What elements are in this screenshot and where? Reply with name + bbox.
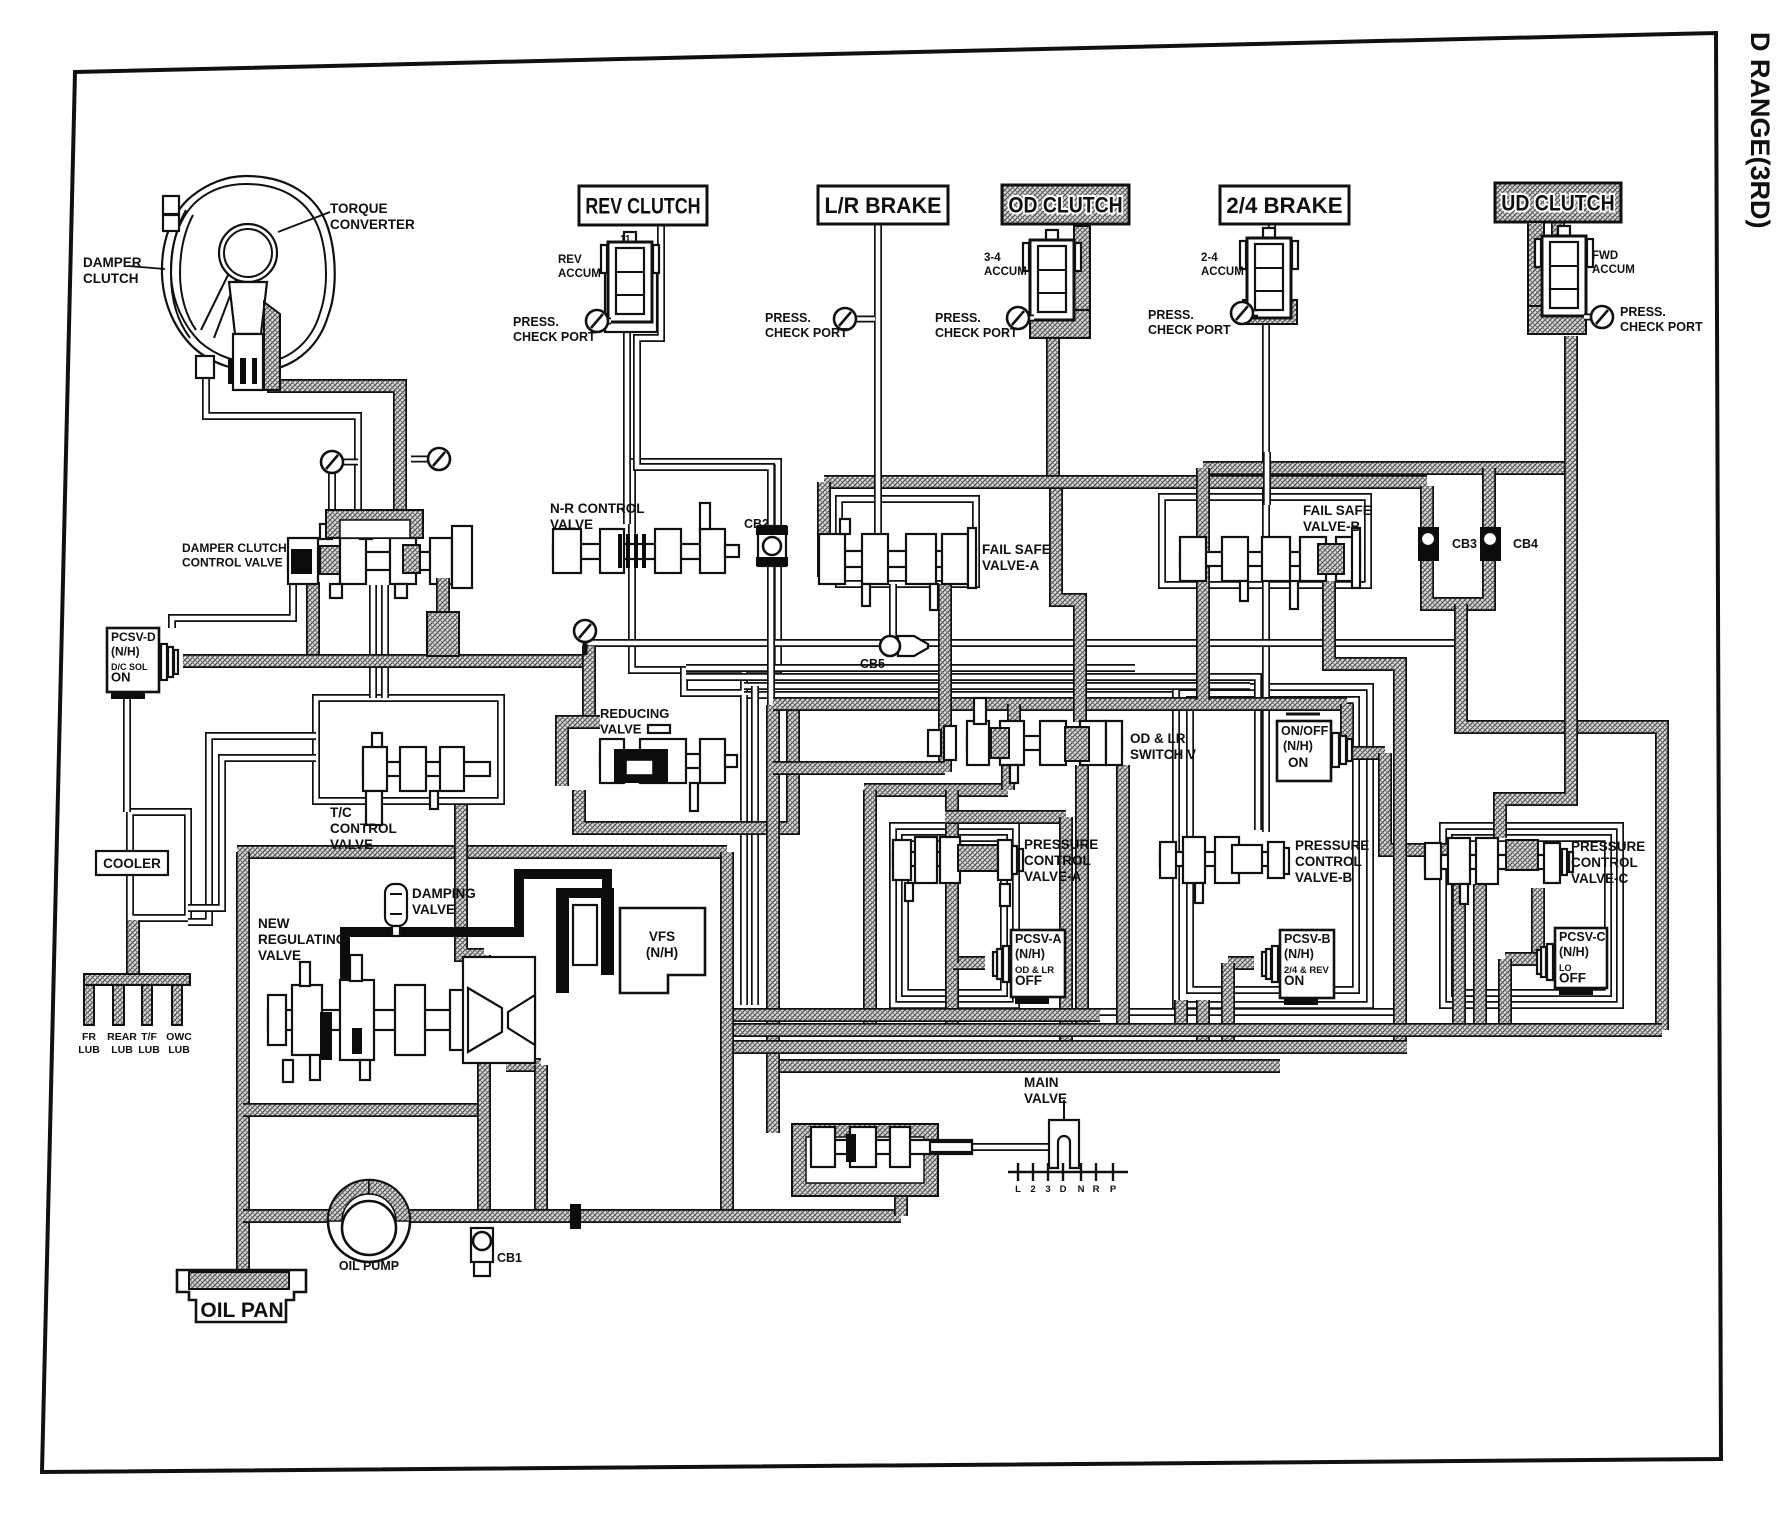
node label fail safe valve-B xyxy=(1303,503,1372,534)
svg-text:T/C: T/C xyxy=(330,805,352,820)
wire main valve hatched chamber xyxy=(792,1124,938,1196)
wire regulator supply band y852 xyxy=(237,845,727,859)
valve fail safe valve-A xyxy=(819,519,976,610)
wire CB3-CB4 loop xyxy=(1427,560,1489,604)
svg-text:DAMPER: DAMPER xyxy=(83,255,142,270)
diode CB3 check ball xyxy=(1418,527,1439,561)
svg-text:OD & LR: OD & LR xyxy=(1130,731,1186,746)
valve pressure control valve-A xyxy=(893,837,1023,906)
node discharge plug xyxy=(570,1204,581,1229)
node label main valve xyxy=(1024,1075,1067,1106)
wire damper clutch leader xyxy=(128,266,165,269)
wire enclosure PCV-C body xyxy=(1443,826,1620,1005)
svg-text:L: L xyxy=(1015,1184,1021,1195)
svg-text:(N/H): (N/H) xyxy=(1284,947,1314,961)
valve pressure control valve-B xyxy=(1160,837,1289,903)
wire PCSV-B stub xyxy=(1228,956,1254,970)
wire PCV-C drain xyxy=(1531,888,1545,959)
valve new regulating valve xyxy=(268,955,535,1082)
capacitor REV accumulator xyxy=(601,232,659,322)
wire 2/4 brake box stem xyxy=(1268,224,1276,240)
transistor ON/OFF solenoid xyxy=(1277,714,1352,781)
svg-text:PRESS.: PRESS. xyxy=(765,311,811,325)
wire enclosure fail-safe valve-B body xyxy=(1162,497,1368,585)
wire REV clutch line to CB2 xyxy=(637,225,771,531)
node lubrication manifold xyxy=(84,974,190,1025)
wire link line y768 xyxy=(773,761,945,775)
wire CB2 outlet down xyxy=(767,562,775,705)
svg-text:PRESS.: PRESS. xyxy=(1620,305,1666,319)
node pressure check port xyxy=(321,451,358,473)
node REV accum jacket xyxy=(605,248,657,332)
node label damping valve xyxy=(412,886,476,917)
svg-text:CONTROL: CONTROL xyxy=(1024,853,1091,868)
svg-text:UD CLUTCH: UD CLUTCH xyxy=(1501,190,1614,215)
svg-text:VFS: VFS xyxy=(649,929,675,944)
node label oil pump xyxy=(339,1259,399,1273)
wire OD-LR valve drain stub xyxy=(1001,765,1015,790)
node label press check port 4 xyxy=(1148,308,1231,337)
wire VFS bold circuit xyxy=(345,874,607,1041)
svg-text:CONTROL: CONTROL xyxy=(330,821,397,836)
valve pressure control valve-C xyxy=(1425,838,1573,904)
node pressure check port xyxy=(586,310,611,332)
svg-text:LUB: LUB xyxy=(138,1044,160,1056)
node torque converter xyxy=(128,176,335,390)
node pressure check port xyxy=(1007,307,1034,329)
node oil pump xyxy=(328,1180,410,1262)
node label rev accum xyxy=(558,254,601,280)
svg-text:VALVE-A: VALVE-A xyxy=(1024,869,1082,884)
transistor PCSV-B solenoid xyxy=(1262,930,1334,1005)
svg-text:NEW: NEW xyxy=(258,916,290,931)
node label pressure control valve-C xyxy=(1571,839,1645,886)
svg-text:CHECK PORT: CHECK PORT xyxy=(1620,320,1703,334)
wire pilot band y704 long xyxy=(773,697,1347,711)
wire pilot line through CB5 xyxy=(587,639,1458,647)
valve main (manual) valve xyxy=(811,1127,972,1167)
svg-text:ACCUM: ACCUM xyxy=(1592,264,1635,276)
node label N-R control valve xyxy=(550,501,645,532)
node OD CLUTCH box xyxy=(1002,185,1129,224)
node label CB4 xyxy=(1513,537,1538,551)
node label new regulating valve xyxy=(258,916,346,963)
wire damper valve to T/C valve line 2 xyxy=(381,585,389,698)
node 2-4 accum pocket xyxy=(1243,300,1297,324)
wire enclosure T/C control valve body xyxy=(316,698,501,801)
node VFS box xyxy=(620,908,705,993)
transistor PCSV-D solenoid xyxy=(107,628,178,699)
svg-text:PRESS.: PRESS. xyxy=(513,315,559,329)
node pressure check port xyxy=(574,620,596,642)
wire converter feed from damper valve xyxy=(274,306,400,515)
wire manual valve pilot return xyxy=(1005,1008,1400,1016)
svg-text:PRESS.: PRESS. xyxy=(935,311,981,325)
wire OD-LR right outlet down xyxy=(1116,765,1130,1030)
wire enclosure on/off + PCV-B body xyxy=(1176,687,1370,1005)
wire cooler drain to lub xyxy=(126,920,140,976)
node label pressure control valve-A xyxy=(1024,837,1098,884)
svg-text:PRESSURE: PRESSURE xyxy=(1295,838,1369,853)
svg-text:CB1: CB1 xyxy=(497,1251,522,1265)
node REV CLUTCH box xyxy=(579,186,707,225)
wire 3-4 accum pocket drain xyxy=(1046,338,1060,486)
valve N-R control valve xyxy=(553,503,739,573)
transistor PCSV-C solenoid xyxy=(1537,928,1607,995)
valve OD-LR switch valve xyxy=(928,698,1122,783)
node pressure check port xyxy=(1231,302,1258,324)
wire pilot bundle line 3 xyxy=(744,682,1250,690)
wire drop to bottom main x952 xyxy=(945,790,959,1030)
svg-text:CONTROL: CONTROL xyxy=(1571,855,1638,870)
wire bottom main 1 xyxy=(727,1008,1100,1022)
valve damping valve xyxy=(385,884,407,936)
wire damper valve drain xyxy=(306,582,320,661)
svg-text:OWC: OWC xyxy=(166,1031,192,1043)
svg-text:FWD: FWD xyxy=(1592,250,1618,262)
svg-text:CB3: CB3 xyxy=(1452,537,1477,551)
svg-text:R: R xyxy=(1093,1184,1100,1195)
svg-text:3: 3 xyxy=(1045,1184,1050,1195)
wire check port stub left xyxy=(328,473,336,512)
svg-text:L/R BRAKE: L/R BRAKE xyxy=(825,193,942,218)
svg-text:CONVERTER: CONVERTER xyxy=(330,217,415,232)
svg-text:VALVE-B: VALVE-B xyxy=(1303,519,1361,534)
valve damper clutch control valve xyxy=(288,524,472,598)
wire line pressure main to PCSV-D xyxy=(183,654,589,668)
wire 2-4 stem over band xyxy=(1263,452,1271,505)
wire discharge riser to main valve xyxy=(894,1190,908,1216)
svg-text:2-4: 2-4 xyxy=(1201,252,1218,264)
wire solenoid feed drop 2 xyxy=(751,686,759,1005)
node label torque converter xyxy=(330,201,415,232)
wire drop to bottom main x1505 xyxy=(1498,959,1512,1030)
wire torque converter leader xyxy=(278,212,330,232)
svg-text:VALVE-C: VALVE-C xyxy=(1571,871,1629,886)
svg-text:CB4: CB4 xyxy=(1513,537,1538,551)
valve reducing valve xyxy=(562,722,737,811)
wire N-R enclosure port notch xyxy=(684,670,744,693)
wire PCSV-A stub v xyxy=(945,947,959,963)
wire damper valve to T/C valve line 1 xyxy=(369,585,377,698)
node label CB3 xyxy=(1452,537,1477,551)
svg-text:(N/H): (N/H) xyxy=(111,645,140,659)
svg-text:CB5: CB5 xyxy=(860,657,885,671)
node label CB2 xyxy=(744,517,769,531)
svg-text:DAMPER CLUTCH: DAMPER CLUTCH xyxy=(182,541,287,555)
node manual lever fork xyxy=(1049,1100,1079,1168)
svg-text:REGULATING: REGULATING xyxy=(258,932,346,947)
wire 2-4 accum line down to PCV-B xyxy=(1262,318,1270,832)
svg-text:MAIN: MAIN xyxy=(1024,1075,1059,1090)
svg-text:3-4: 3-4 xyxy=(984,252,1001,264)
wire enclosure PCV-A inner outline xyxy=(905,838,1004,993)
wire reducing valve outlet loop xyxy=(579,707,793,828)
node label pressure control valve-B xyxy=(1295,838,1369,885)
svg-text:ACCUM: ACCUM xyxy=(984,266,1027,278)
node pressure check port xyxy=(411,448,450,470)
wire band A left drop xyxy=(1196,468,1210,700)
wire cooler bypass loop xyxy=(130,812,188,918)
node label press check port 5 xyxy=(1620,305,1703,334)
node pressure check port xyxy=(1584,306,1613,328)
svg-text:OIL PAN: OIL PAN xyxy=(200,1299,283,1322)
node label PCSV-D leader xyxy=(600,706,669,737)
svg-text:VALVE: VALVE xyxy=(550,517,593,532)
node label CB5 xyxy=(860,657,885,671)
node label OD-LR switch xyxy=(1130,731,1196,762)
svg-text:LUB: LUB xyxy=(78,1044,100,1056)
svg-text:OFF: OFF xyxy=(1559,971,1586,986)
svg-text:LUB: LUB xyxy=(111,1044,133,1056)
wire drop to bottom main x1459 xyxy=(1452,850,1466,1030)
svg-text:VALVE: VALVE xyxy=(412,902,455,917)
svg-text:DAMPING: DAMPING xyxy=(412,886,476,901)
diode CB5 check ball xyxy=(880,636,928,656)
wire pilot bundle line 1 xyxy=(686,664,1135,672)
wire UD band A xyxy=(1203,461,1571,475)
svg-text:CHECK PORT: CHECK PORT xyxy=(513,330,596,344)
svg-text:TORQUE: TORQUE xyxy=(330,201,388,216)
capacitor 3-4 accumulator xyxy=(1023,230,1081,320)
node 3-4 accum pocket xyxy=(1074,226,1090,338)
svg-text:REV CLUTCH: REV CLUTCH xyxy=(585,193,700,218)
wire PCSV-A stub xyxy=(953,956,985,970)
node label press check port 3 xyxy=(935,311,1018,340)
wire enclosure PCV-A body xyxy=(893,826,1016,1005)
wire OD-LR switch outlet down xyxy=(1075,765,1089,1030)
diode CB1 check ball xyxy=(471,1228,493,1276)
svg-text:ON: ON xyxy=(1288,755,1308,770)
svg-text:D: D xyxy=(1060,1184,1067,1195)
wire suction line to oil pan xyxy=(236,852,250,1271)
node UD CLUTCH box xyxy=(1495,183,1621,222)
wire fail-safe A drain xyxy=(938,584,952,772)
wire PCSV-C stub xyxy=(1505,952,1538,966)
wire drop to bottom main x1228 xyxy=(1221,963,1235,1047)
svg-text:VALVE: VALVE xyxy=(258,948,301,963)
node detent positions xyxy=(1008,1163,1128,1195)
svg-text:VALVE: VALVE xyxy=(1024,1091,1067,1106)
svg-text:PRESS.: PRESS. xyxy=(1148,308,1194,322)
node label damper clutch control valve xyxy=(182,541,287,570)
wire bottom main 2 xyxy=(727,1023,1662,1037)
wire bottom main 4 xyxy=(780,1059,1280,1073)
wire drop to bottom main x1480 xyxy=(1473,884,1487,1030)
svg-text:P: P xyxy=(1110,1184,1117,1195)
wire drop x727 to pump line xyxy=(720,852,734,1216)
wire enclosure PCV-C inner outline xyxy=(1455,838,1608,993)
svg-text:VALVE: VALVE xyxy=(330,837,373,852)
wire regulator right drop xyxy=(534,1065,548,1216)
svg-text:FR: FR xyxy=(82,1031,96,1043)
wire REV accum drain to N-R valve xyxy=(623,332,631,524)
svg-text:ON/OFF: ON/OFF xyxy=(1281,724,1329,738)
svg-text:PCSV-B: PCSV-B xyxy=(1284,932,1331,946)
node L/R BRAKE box xyxy=(818,186,948,224)
wire OD feed to OD-LR switch xyxy=(1056,486,1080,722)
wire pilot bundle line 4 xyxy=(744,691,1172,699)
svg-text:CONTROL VALVE: CONTROL VALVE xyxy=(182,556,283,570)
svg-text:COOLER: COOLER xyxy=(103,856,161,871)
wire damper valve to PCSV-D line xyxy=(172,585,293,628)
node oil pan xyxy=(177,1270,306,1322)
svg-text:ON: ON xyxy=(111,670,131,685)
svg-text:LUB: LUB xyxy=(168,1044,190,1056)
svg-text:REAR: REAR xyxy=(107,1031,137,1043)
svg-text:VALVE: VALVE xyxy=(600,722,642,737)
wire fail-safe B drain to main xyxy=(1329,581,1400,1047)
wire solenoid feed drop 1 xyxy=(740,695,748,1005)
svg-text:FAIL SAFE: FAIL SAFE xyxy=(1303,503,1372,518)
wire fail-safe A to CB5 xyxy=(889,584,897,638)
wire cooler feed line outer xyxy=(188,736,316,922)
node cooler xyxy=(96,851,168,875)
svg-text:PCSV-C: PCSV-C xyxy=(1559,930,1606,944)
valve T/C control valve xyxy=(363,733,490,825)
svg-text:D RANGE(3RD): D RANGE(3RD) xyxy=(1745,32,1775,229)
svg-text:CLUTCH: CLUTCH xyxy=(83,271,139,286)
wire pilot pressure drop center xyxy=(766,705,780,1133)
wire main valve stem xyxy=(972,1143,1049,1151)
capacitor FWD accumulator xyxy=(1535,226,1593,316)
node 2/4 BRAKE box xyxy=(1220,186,1349,224)
wire ON/OFF drain to PCV-C side xyxy=(1385,753,1459,850)
svg-text:REDUCING: REDUCING xyxy=(600,706,669,721)
svg-text:PCSV-D: PCSV-D xyxy=(111,630,156,644)
svg-text:OFF: OFF xyxy=(1015,973,1042,988)
node label 3-4 accum xyxy=(984,252,1027,278)
wire PCSV-D drain to cooler xyxy=(123,695,131,812)
wire regulator right stub xyxy=(506,1058,541,1072)
wire link line y790 xyxy=(864,783,1008,797)
node label 11 mark xyxy=(620,234,631,245)
svg-text:FAIL SAFE: FAIL SAFE xyxy=(982,542,1051,557)
wire link line y817 xyxy=(945,810,1066,824)
node label CB1 xyxy=(497,1251,522,1265)
wire pilot bundle line 2 xyxy=(686,677,1258,830)
node label press check port 1 xyxy=(513,315,596,344)
wire drop to bottom main x1066 xyxy=(1059,817,1073,1047)
wire regulator feedback drop x484 xyxy=(477,955,491,1216)
node FWD accum pocket xyxy=(1528,222,1544,326)
svg-text:(N/H): (N/H) xyxy=(646,945,678,960)
wire enclosure N-R control valve body xyxy=(632,462,778,670)
wire UD clutch stem xyxy=(1551,222,1565,318)
svg-text:CB2: CB2 xyxy=(744,517,769,531)
wire enclosure on/off inner outline xyxy=(1190,700,1356,990)
svg-text:PCSV-A: PCSV-A xyxy=(1015,932,1062,946)
node label lub points xyxy=(78,1031,100,1056)
wire cooler feed line inner xyxy=(188,758,316,908)
svg-text:PRESSURE: PRESSURE xyxy=(1571,839,1645,854)
svg-text:SWITCH V: SWITCH V xyxy=(1130,747,1196,762)
capacitor 2-4 accumulator xyxy=(1240,228,1298,318)
svg-text:CONTROL: CONTROL xyxy=(1295,854,1362,869)
wire drop to bottom main x870 xyxy=(863,790,877,1030)
svg-text:(N/H): (N/H) xyxy=(1559,945,1589,959)
svg-text:PRESSURE: PRESSURE xyxy=(1024,837,1098,852)
svg-text:N: N xyxy=(1078,1184,1085,1195)
valve fail safe valve-B xyxy=(1180,528,1360,609)
node label T/C control valve xyxy=(330,805,397,852)
svg-text:2: 2 xyxy=(1030,1184,1035,1195)
svg-text:VALVE-A: VALVE-A xyxy=(982,558,1040,573)
svg-text:REV: REV xyxy=(558,254,582,266)
svg-text:CHECK PORT: CHECK PORT xyxy=(765,326,848,340)
svg-text:2/4 BRAKE: 2/4 BRAKE xyxy=(1226,193,1342,218)
wire band stub into OD-LR valve xyxy=(1007,704,1021,721)
svg-text:ACCUM: ACCUM xyxy=(1201,266,1244,278)
svg-text:OD CLUTCH: OD CLUTCH xyxy=(1008,192,1122,217)
wire damper valve top chamber xyxy=(326,510,423,538)
diode CB2 check ball xyxy=(756,526,788,566)
wire torque converter drain line xyxy=(206,313,358,512)
svg-text:(N/H): (N/H) xyxy=(1015,947,1045,961)
wire CB3 feed xyxy=(1420,486,1434,528)
wire CB4 feed xyxy=(1482,468,1496,528)
wire pump discharge main xyxy=(410,1209,901,1223)
wire ON-OFF feed drop xyxy=(1340,704,1354,753)
wire L/R brake line xyxy=(874,224,882,540)
wire converter hatched wedge xyxy=(264,302,280,390)
wire drop x1181 xyxy=(1174,1000,1188,1030)
wire T/C valve pillar xyxy=(461,805,484,955)
svg-text:N-R CONTROL: N-R CONTROL xyxy=(550,501,645,516)
svg-text:CHECK PORT: CHECK PORT xyxy=(1148,323,1231,337)
diode CB4 check ball xyxy=(1480,527,1501,561)
wire line pressure band B xyxy=(824,475,1427,489)
wire drop x1203b xyxy=(1196,1000,1210,1047)
wire regulator link y1110 xyxy=(243,1103,484,1117)
svg-text:OIL PUMP: OIL PUMP xyxy=(339,1259,399,1273)
node label fail safe valve-A xyxy=(982,542,1051,573)
wire UD line to PCV-C xyxy=(1500,336,1571,838)
svg-text:ACCUM: ACCUM xyxy=(558,268,601,280)
svg-text:ON: ON xyxy=(1284,973,1304,988)
wire bottom main 3 xyxy=(727,1040,1407,1054)
transistor VFS solenoid xyxy=(556,888,614,993)
svg-text:CHECK PORT: CHECK PORT xyxy=(935,326,1018,340)
node pressure check port xyxy=(834,308,875,330)
transistor PCSV-A solenoid xyxy=(993,930,1065,1004)
wire main to reducing valve xyxy=(582,646,596,716)
wire enclosure fail-safe valve-A body xyxy=(839,499,976,584)
wire pump suction xyxy=(243,1209,330,1223)
node label fwd accum xyxy=(1592,250,1635,276)
node label damper clutch xyxy=(83,255,142,286)
svg-text:T/F: T/F xyxy=(141,1031,157,1043)
wire ON/OFF solenoid stub xyxy=(1347,746,1385,760)
node label press check port 2 xyxy=(765,311,848,340)
wire band B left frame drop xyxy=(817,482,831,577)
node label 2-4 accum xyxy=(1201,252,1244,278)
svg-text:11: 11 xyxy=(620,234,631,245)
wire main drop right side xyxy=(1461,604,1662,1030)
wire L/R stem over band xyxy=(874,460,882,545)
svg-text:VALVE-B: VALVE-B xyxy=(1295,870,1353,885)
wire damper valve right port drop xyxy=(436,578,450,656)
svg-text:(N/H): (N/H) xyxy=(1283,739,1313,753)
